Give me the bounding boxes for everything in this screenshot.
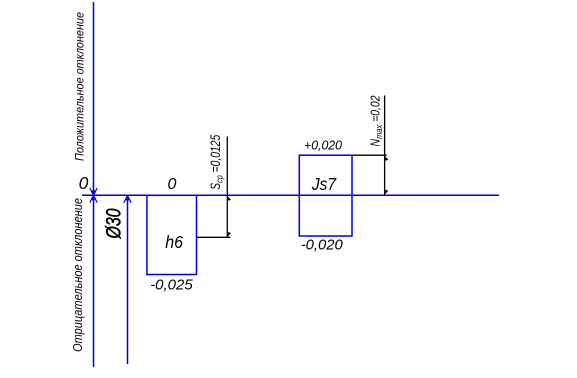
svg-text:Nmax =0,02: Nmax =0,02 (368, 95, 386, 147)
deviation axis (vertical) (93, 2, 95, 367)
dimension Scp: lower arrow tick (227, 232, 231, 237)
tolerance field h6 (147, 195, 197, 274)
svg-text:h6: h6 (165, 232, 183, 252)
svg-text:0: 0 (167, 176, 176, 193)
tolerance field Js7 (299, 155, 352, 236)
svg-text:Js7: Js7 (311, 174, 338, 194)
dimension arrowhead at extension line (pointing up to zero line) (124, 196, 131, 203)
dimension Nmax: upper arrow tick (385, 156, 389, 161)
origin arrowhead (upper, pointing down to zero line) (90, 188, 97, 195)
dimension Nmax: horizontal line at top of Js7 (352, 154, 387, 156)
svg-text:-0,025: -0,025 (150, 277, 193, 294)
svg-text:Отрицательное отклонение: Отрицательное отклонение (71, 198, 85, 352)
svg-text:Ø30: Ø30 (103, 208, 126, 239)
zero line (82, 194, 499, 196)
svg-text:+0,020: +0,020 (304, 137, 343, 152)
svg-text:-0,020: -0,020 (301, 237, 344, 254)
svg-text:0: 0 (79, 173, 89, 193)
dimension Scp: horizontal line at mid of h6 (197, 236, 231, 238)
origin arrowhead (lower, pointing up to zero line) (90, 195, 97, 202)
extension line for diameter dimension (127, 196, 129, 365)
dimension Scp: upper arrow tick (227, 196, 231, 201)
svg-text:Scp =0,0125: Scp =0,0125 (208, 134, 226, 189)
dimension Nmax: lower arrow tick (385, 190, 389, 195)
dimension Nmax: vertical dim line (384, 96, 386, 196)
dimension Scp: extension/dim vertical line (226, 137, 228, 238)
svg-text:Положительное отклонение: Положительное отклонение (73, 12, 87, 161)
